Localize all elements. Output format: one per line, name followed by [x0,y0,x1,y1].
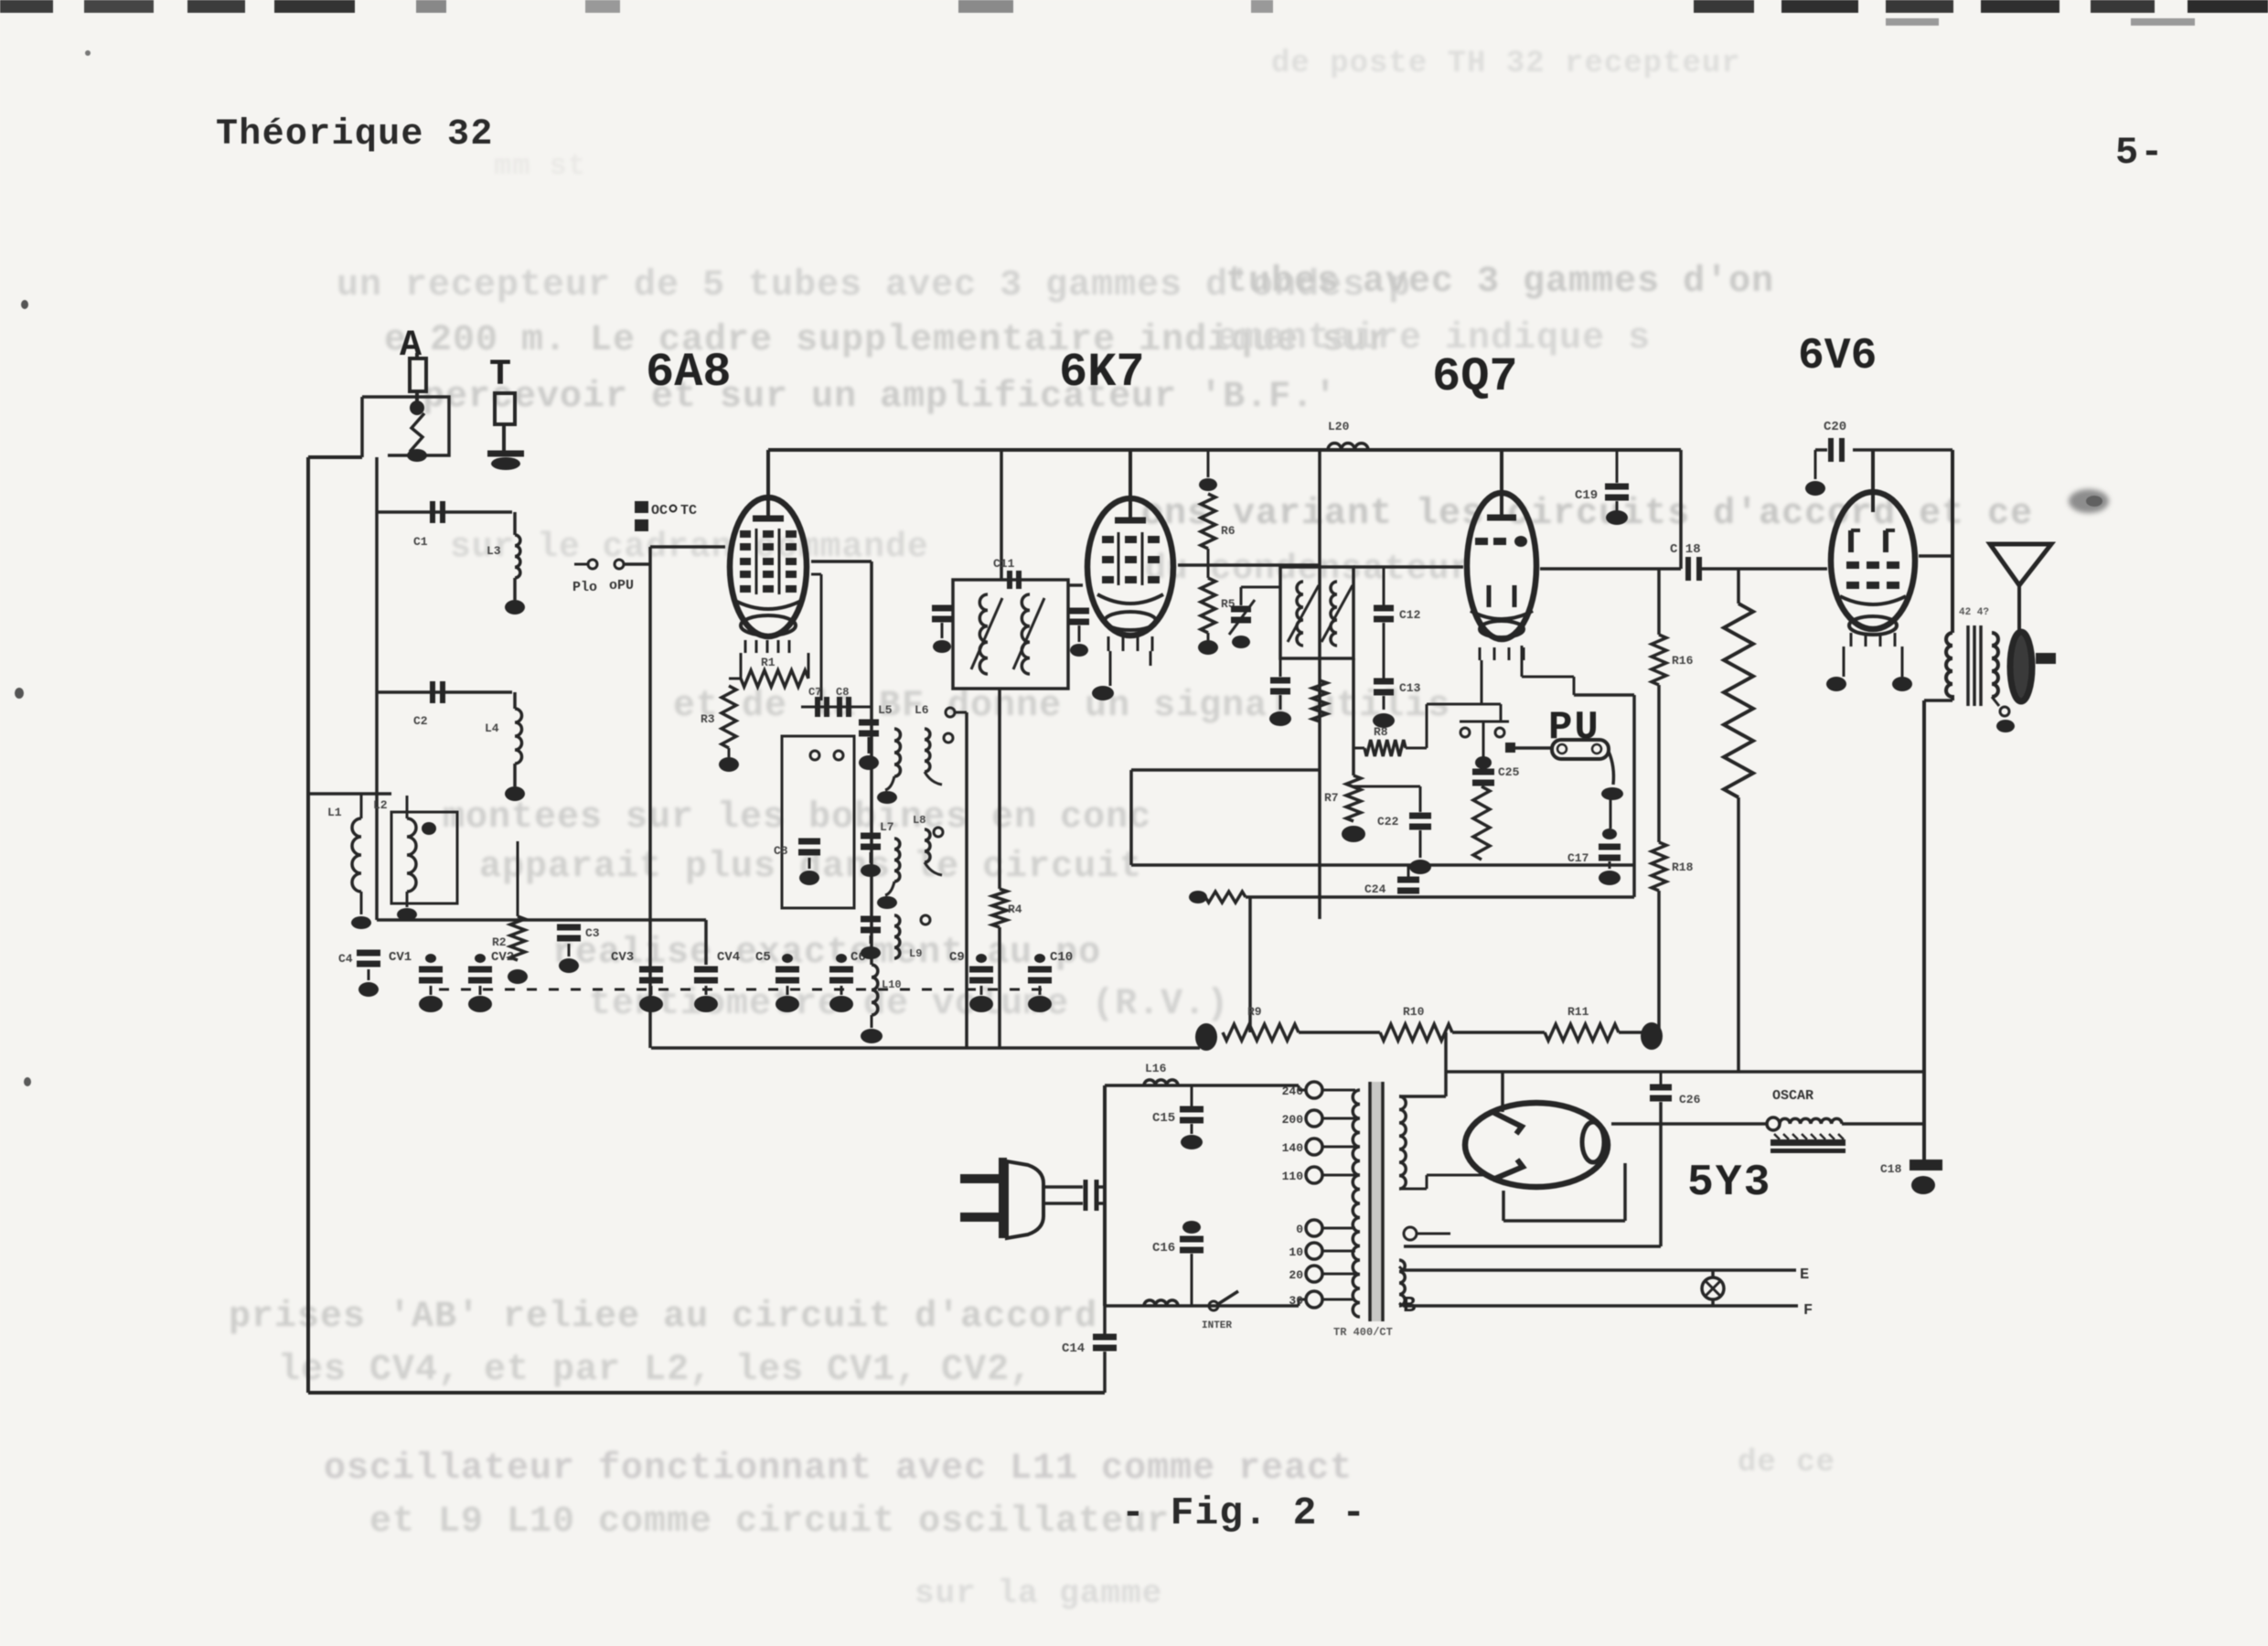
svg-text:R10: R10 [1403,1005,1425,1019]
resistor R9 [1223,1024,1299,1041]
mains vertical wire [1103,1085,1107,1306]
svg-text:oscillateur fonctionnant avec: oscillateur fonctionnant avec L11 comme … [324,1448,1353,1490]
svg-text:R2: R2 [492,935,507,949]
svg-text:- Fig. 2 -: - Fig. 2 - [1121,1491,1366,1535]
svg-text:C19: C19 [1575,488,1598,503]
vertical wire x1057 [965,712,968,1048]
svg-text:L20: L20 [1328,420,1350,433]
svg-text:mm st: mm st [494,149,586,183]
resistor R6 [1207,450,1210,477]
wire to C2 [377,690,512,694]
svg-text:de ce: de ce [1738,1446,1835,1480]
switch contacts [810,751,819,760]
coil L1 [308,792,391,796]
dashed gang line [439,989,1052,991]
svg-text:C8: C8 [774,844,788,858]
svg-text:CV1: CV1 [389,950,412,965]
selector bar [1460,721,1509,723]
coil L8 [925,829,930,862]
svg-text:C3: C3 [585,926,600,940]
svg-text:L1: L1 [327,806,342,819]
svg-text:5-: 5- [2115,131,2165,175]
wire 6V6 cap to plate bus [1873,448,1952,452]
svg-text:L2: L2 [373,798,388,812]
svg-text:TR 400/CT: TR 400/CT [1333,1326,1393,1339]
vertical from top bus x1838 [1679,450,1683,569]
bus wire y981 [1189,891,1207,903]
svg-text:T: T [489,355,511,396]
svg-text:L8: L8 [913,814,925,827]
output transformer secondary [1992,633,1998,697]
wire chain [1299,1031,1380,1034]
svg-text:oPU: oPU [609,578,634,593]
ground below L4 [513,764,517,786]
svg-text:C 18: C 18 [1670,542,1701,557]
vertical wire x711 [648,547,652,1048]
tube 6Q7 envelope [1467,493,1536,639]
svg-text:C9: C9 [949,950,965,965]
capacitors C7 C8 [801,706,863,709]
bottom bus wire [308,1391,1105,1395]
svg-text:OSCAR: OSCAR [1772,1088,1813,1104]
coil L6 [925,729,930,772]
svg-text:R16: R16 [1672,654,1694,668]
svg-text:C13: C13 [1399,681,1421,695]
6K7 grid dots [1102,536,1114,543]
speaker terminal bar [2036,653,2056,664]
vertical wire x953 [870,561,873,920]
left outer bus wire [306,457,310,1393]
mains plug body [999,1158,1007,1238]
svg-text:L6: L6 [915,703,929,717]
5Y3 plate lead vertical [1501,1072,1504,1112]
svg-text:20: 20 [1289,1268,1303,1282]
wire to PU jack [1515,746,1552,750]
bus wire y1172 [1446,1070,1924,1074]
top edge scan fragments [0,0,53,13]
svg-text:OC: OC [651,503,668,518]
ground below L3 [513,578,517,600]
heater line E [1403,1268,1796,1272]
wire chain 2 [1452,1031,1545,1034]
contacts right [946,708,955,717]
6Q7 diode plates [1487,585,1492,607]
capacitor C24 [1407,865,1410,878]
primary taps bottom [1306,1220,1322,1236]
5Y3 plate lead 2 [1399,1188,1427,1191]
6V6 top cap lead [1871,450,1875,499]
svg-text:R4: R4 [1008,903,1022,916]
variable capacitor CV3 [639,967,663,973]
svg-text:et L9 L10 comme circuit oscill: et L9 L10 comme circuit oscillateur [369,1502,1170,1543]
svg-text:du condensateur: du condensateur [1145,550,1471,589]
svg-text:CV2: CV2 [491,950,514,965]
coil L5 [894,729,901,776]
svg-text:C20: C20 [1824,420,1846,434]
right vertical bus lower [1951,695,1954,700]
IF transformer 1 box [953,580,1068,689]
wire 6K7 screen row [1178,563,1320,567]
6K7 cathode [1097,594,1163,604]
wire 6Q7 plate to right [1540,567,1681,571]
vertical wire CV4 [704,920,708,965]
PU jack [1552,740,1609,759]
capacitor C18 output [1910,1160,1942,1170]
6K7 plate bar [1115,518,1146,524]
resistor R2 [517,841,519,916]
svg-text:Théorique 32: Théorique 32 [216,114,494,155]
coil L3 [513,512,517,535]
coil L10 [870,920,873,965]
svg-text:R9: R9 [1247,1005,1262,1019]
svg-text:percevoir et sur un amplificat: percevoir et sur un amplificateur 'B.F.' [423,377,1337,418]
svg-text:de poste TH 32 recepteur: de poste TH 32 recepteur [1271,47,1741,81]
vertical wire x1816 [1660,1072,1663,1085]
mains plug prongs [960,1174,999,1183]
wire 5Y3 output [1611,1122,1767,1126]
IFT2 primary winding [1297,582,1303,646]
6Q7 grid dots [1475,538,1488,545]
coil L20 on top bus [1328,444,1368,450]
wire lower left [377,918,706,922]
capacitor C11 [1007,571,1012,589]
wire to 6V6 grid [1699,567,1827,571]
svg-text:5Y3: 5Y3 [1687,1159,1771,1208]
capacitor padder 3 [861,916,881,923]
ground below L2 [406,892,409,907]
capacitor C19 [1616,450,1619,483]
IFT1 left capacitor [932,605,952,612]
resistor R11 [1545,1024,1619,1041]
capacitor C25 [1472,769,1494,775]
svg-text:6Q7: 6Q7 [1432,350,1518,404]
5Y3 plate hooks [1492,1112,1522,1134]
svg-text:R18: R18 [1672,860,1694,874]
capacitor padder 2 [861,833,881,839]
6A8 plate bar [753,516,784,522]
IFT1 secondary winding [1022,594,1030,674]
capacitor C16 [1182,1221,1201,1234]
primary top wire [1105,1084,1299,1087]
volume pot R17 [1737,569,1740,604]
coil L7 [894,839,900,882]
resistor R1 [741,670,808,687]
wire IFT2 to 6Q7 grid [1353,565,1463,569]
svg-text:L10: L10 [882,978,902,991]
wire cathode riser [1426,704,1428,748]
coil L2 [406,796,409,818]
vertical wire x1367 [1248,897,1252,1032]
earth terminal symbol [495,393,515,424]
svg-text:CV4: CV4 [717,950,740,965]
svg-text:6K7: 6K7 [1059,346,1145,400]
speaker cone [1990,544,2051,585]
IFT1 primary winding [979,594,988,674]
6Q7 cathode [1471,611,1533,619]
trimmers OC TC [635,501,648,513]
5Y3 cathode return box [1502,1191,1505,1221]
resistor inline x1443 [1312,680,1327,721]
svg-text:F: F [1803,1302,1813,1320]
svg-text:6A8: 6A8 [646,346,732,400]
svg-text:PU: PU [1548,705,1600,751]
coil bottom [1144,1300,1178,1306]
inner left wire [375,457,379,920]
capacitor C12 [1383,567,1385,605]
svg-text:C2: C2 [413,714,428,728]
svg-text:Plo: Plo [572,580,597,595]
variable capacitor CV2 [475,954,486,963]
coil L9 [894,915,900,958]
chain left blob [1195,1023,1217,1051]
grid cap capacitor C20 [1815,448,1827,452]
svg-text:C7: C7 [808,686,821,699]
antenna symbol [410,358,426,391]
svg-text:prises 'AB' reliee au circuit: prises 'AB' reliee au circuit d'accord [229,1297,1097,1338]
heater winding [1399,1260,1405,1306]
svg-text:R11: R11 [1567,1005,1589,1019]
svg-text:C8: C8 [836,686,849,699]
svg-text:L7: L7 [880,820,894,834]
6V6 plate bars [1871,499,1875,512]
oscillator section box [782,736,854,908]
variable capacitor CV1 [425,954,436,963]
capacitor C4 [357,950,380,957]
svg-text:C12: C12 [1399,608,1421,622]
svg-text:C1: C1 [413,535,428,549]
resistor R7 [1352,658,1355,775]
mains connector [1084,1180,1088,1211]
svg-text:C17: C17 [1567,851,1589,865]
transformer primary winding [1353,1090,1360,1317]
resistor R8 [1364,740,1406,756]
wire antenna to left bus [360,397,364,457]
PU box right vertical [1632,695,1636,897]
transformer core [1371,1082,1382,1321]
choke core [1771,1139,1845,1146]
HT center tap terminal [1404,1227,1417,1240]
wire 6V6 plate [1919,554,1952,558]
svg-text:30: 30 [1289,1294,1303,1308]
svg-text:R8: R8 [1374,725,1388,739]
resistor R5 [1207,565,1210,578]
transformer HT secondary winding [1399,1096,1406,1189]
svg-text:C14: C14 [1062,1341,1085,1356]
right margin smudge [2069,489,2109,513]
wire grid feed 6A8 [650,545,725,549]
svg-text:6V6: 6V6 [1798,332,1877,381]
svg-text:tubes avec 3 gammes d'on: tubes avec 3 gammes d'on [1225,262,1774,303]
selector contacts [1460,728,1470,737]
antenna coupling box [362,397,449,455]
6V6 pins [1850,633,1853,647]
svg-text:0: 0 [1296,1223,1303,1236]
svg-text:C15: C15 [1152,1111,1175,1126]
6Q7 top cap lead [1500,450,1503,516]
resistor R3 [729,678,741,680]
capacitor C13 [1383,623,1385,679]
wire to C1 [377,510,512,514]
capacitor C3 [557,925,581,931]
variable capacitor C5 [782,954,793,963]
svg-text:C4: C4 [338,952,353,966]
output transformer core [1966,625,1970,706]
wire top cap bus [768,448,1681,452]
vertical wire x1581 [1444,1032,1448,1096]
junction square [1505,743,1515,753]
IFT2 left trimmer capacitor [1241,586,1280,589]
resistor below C25 [1473,786,1490,860]
variable capacitor C9 [976,954,987,963]
resistor R18 [1652,842,1666,891]
6A8 pins [744,640,747,653]
choke winding [1780,1118,1842,1124]
svg-text:TC: TC [680,503,697,518]
capacitor C22 [1353,786,1420,788]
bus wire y1146 [651,1046,1200,1050]
antenna coil box L1 L2 [391,812,457,903]
svg-text:C10: C10 [1050,950,1073,965]
svg-text:E: E [1800,1267,1809,1284]
vertical wire x1443 [1318,450,1321,919]
tube 6V6 envelope [1831,492,1915,629]
resistor R4 [998,689,1001,889]
wire IFT1 to 6K7 grid [1068,583,1083,587]
6K7 top cap lead [1129,450,1132,519]
svg-text:les CV4, et par L2, les CV1, C: les CV4, et par L2, les CV1, CV2, [278,1350,1032,1391]
fuse coil L16 [1144,1080,1178,1085]
bus wire y946 [1131,863,1634,867]
wire B+ lower [1404,1245,1661,1248]
vertical wire from top bus to IFT1 [1000,450,1003,580]
svg-text:42 4?: 42 4? [1959,607,1989,618]
svg-text:INTER: INTER [1202,1320,1232,1331]
speaker magnet [2010,632,2032,701]
svg-text:110: 110 [1282,1170,1304,1183]
svg-text:realise exactement au po: realise exactement au po [552,933,1101,974]
right vertical bus upper [1951,450,1954,633]
resistor R16 [1657,569,1661,635]
primary bottom wire [1105,1304,1299,1308]
mains cord [1043,1185,1083,1189]
svg-text:C5: C5 [755,950,771,965]
capacitor C2 [430,681,435,703]
svg-text:L3: L3 [487,544,501,558]
svg-text:C25: C25 [1498,765,1520,779]
6Q7 pin leads [1481,660,1483,704]
svg-text:montees sur les bobines en con: montees sur les bobines en conc [443,797,1151,839]
6V6 cathode [1840,596,1906,604]
selector arm [1482,721,1485,757]
svg-text:R7: R7 [1324,791,1339,805]
resistor R10 [1380,1024,1452,1041]
svg-text:R3: R3 [701,712,715,726]
tube 6K7 envelope [1087,498,1173,636]
svg-text:C24: C24 [1364,882,1386,896]
variable capacitor C6 [836,954,847,963]
wire 6A8 grid2 right [811,560,872,563]
vertical wire x1237 [1129,770,1133,865]
wire choke to bus [1842,1122,1924,1126]
capacitor below IFT2 [1279,658,1282,677]
svg-text:C22: C22 [1377,815,1399,828]
capacitor C8b [798,839,820,845]
heater line F [1403,1304,1798,1308]
capacitor C26 [1650,1085,1672,1091]
6V6 grid dots [1846,561,1859,569]
svg-text:L5: L5 [878,703,893,717]
svg-text:C11: C11 [993,557,1015,571]
capacitor C18 series [1685,557,1691,581]
capacitor C padder [859,720,879,726]
mains switch INTER [1209,1301,1218,1310]
primary taps top [1306,1082,1322,1098]
capacitor C17 [1610,799,1612,828]
svg-text:C16: C16 [1152,1241,1175,1256]
6K7 grid rods [1118,532,1120,585]
wire y842 [1131,768,1320,772]
switch Plo PU [588,560,597,569]
svg-text:et de la BF donne un signal ut: et de la BF donne un signal utilis [673,686,1450,727]
5Y3 inner seal [1582,1122,1604,1162]
6Q7 pins [1479,647,1482,660]
tube 5Y3 envelope [1465,1103,1608,1187]
svg-text:L9: L9 [909,947,922,960]
IFT1 right capacitor [1069,608,1089,615]
wire 6A8 grid3 [811,573,821,576]
svg-text:C26: C26 [1679,1093,1701,1106]
output transformer primary [1946,633,1952,697]
6A8 grid rods [755,529,758,594]
heater winding leads [1399,1267,1403,1270]
capacitor C1 [430,501,435,523]
svg-text:sur la gamme: sur la gamme [915,1575,1162,1612]
ground below L1 [360,892,363,914]
HT secondary top lead [1399,1095,1446,1098]
svg-text:140: 140 [1282,1141,1304,1155]
PU jack lead [1609,752,1613,785]
svg-text:C18: C18 [1880,1162,1902,1176]
6K7 pins [1107,636,1110,651]
svg-text:L4: L4 [485,721,499,735]
coil L4 [513,692,517,709]
6Q7 plate bar [1487,515,1516,521]
6A8 grid dots [740,530,751,538]
svg-text:R6: R6 [1221,524,1236,538]
capacitor C14 [1103,1306,1107,1334]
6A8 top cap lead [766,450,770,518]
tube 6A8 envelope [730,497,807,636]
6A8 cathode [733,600,803,609]
left margin specks [21,300,28,309]
svg-text:10: 10 [1289,1245,1303,1259]
IFT2 secondary winding [1331,582,1337,646]
svg-text:L16: L16 [1145,1062,1167,1075]
pilot lamp [1711,1270,1715,1306]
svg-text:R1: R1 [761,656,776,669]
variable capacitor C10 [1034,954,1045,963]
choke terminal circle [1767,1117,1780,1130]
IF transformer 2 box [1280,567,1353,658]
svg-text:CV3: CV3 [611,950,634,965]
svg-text:200: 200 [1282,1113,1304,1127]
secondary lead [2000,707,2009,716]
capacitor C15 [1191,1085,1193,1106]
variable capacitor CV4 [694,967,718,973]
chain right blob [1619,1031,1642,1034]
